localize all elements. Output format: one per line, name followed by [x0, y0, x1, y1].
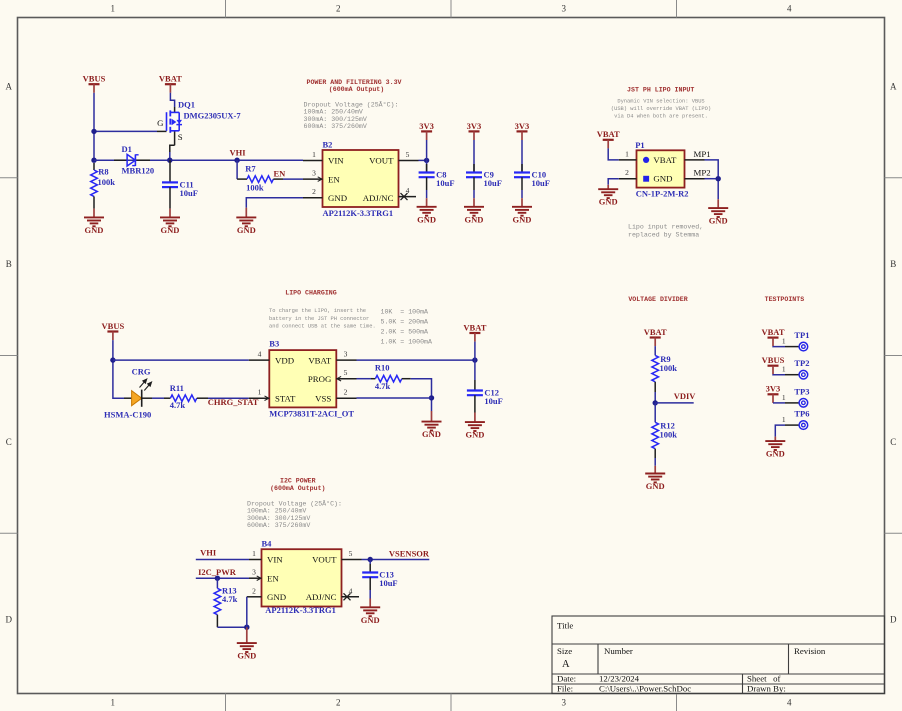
svg-text:VBAT: VBAT — [653, 155, 677, 165]
junction MP1/MP2 — [716, 176, 721, 181]
svg-text:3V3: 3V3 — [515, 121, 530, 131]
svg-text:2: 2 — [252, 586, 256, 595]
wire VHI to R7 — [236, 160, 238, 179]
svg-text:CN-1P-2M-R2: CN-1P-2M-R2 — [636, 189, 689, 199]
svg-text:5: 5 — [406, 150, 410, 159]
pin MP1 of P1 — [685, 149, 711, 160]
svg-text:2: 2 — [625, 168, 629, 177]
svg-text:4: 4 — [349, 586, 353, 595]
svg-text:VBUS: VBUS — [102, 321, 125, 331]
svg-text:3: 3 — [561, 698, 566, 708]
svg-text:TP2: TP2 — [794, 358, 809, 368]
junction rail/source/C11 — [167, 158, 172, 163]
power port VBUS (3.3V reg input) — [83, 74, 106, 93]
svg-text:R8: R8 — [98, 166, 108, 176]
ground under C13 — [360, 599, 380, 625]
svg-text:10uF: 10uF — [436, 178, 454, 188]
pin 5 VOUT of B2 — [369, 150, 418, 166]
svg-text:VIN: VIN — [328, 156, 344, 166]
diode D1 MBR120 — [114, 144, 154, 175]
svg-text:1: 1 — [625, 149, 629, 158]
wire I2C_PWR down — [216, 578, 218, 588]
svg-text:TESTPOINTS: TESTPOINTS — [765, 296, 805, 303]
wire TP2 wire — [773, 373, 785, 375]
svg-text:VBAT: VBAT — [644, 327, 667, 337]
svg-text:C: C — [6, 437, 12, 447]
svg-text:Drawn By:: Drawn By: — [747, 683, 786, 693]
svg-text:3: 3 — [561, 4, 566, 14]
svg-text:2: 2 — [344, 388, 348, 397]
svg-text:GND: GND — [653, 174, 672, 184]
svg-text:VOUT: VOUT — [369, 156, 394, 166]
svg-text:5: 5 — [349, 549, 353, 558]
svg-text:GND: GND — [599, 197, 618, 207]
wire C12 to gnd — [474, 360, 476, 380]
ground under P1 pin2 — [598, 185, 618, 207]
svg-text:VDD: VDD — [275, 355, 294, 365]
resistor R10 4.7k — [357, 362, 411, 391]
pin 3 VBAT of B3 — [308, 350, 356, 366]
ground under C11 — [160, 209, 180, 235]
svg-text:VSENSOR: VSENSOR — [389, 549, 430, 559]
pin 1 STAT of B3 — [249, 388, 296, 404]
svg-text:CRG: CRG — [132, 367, 151, 377]
svg-text:10uF: 10uF — [532, 178, 550, 188]
testpoint TP2 — [782, 358, 810, 379]
svg-text:B4: B4 — [262, 539, 273, 549]
svg-text:Revision: Revision — [794, 646, 826, 656]
svg-text:VBAT: VBAT — [463, 322, 486, 332]
svg-text:Dropout Voltage (25Â°C):: Dropout Voltage (25Â°C): — [304, 101, 399, 109]
title block text — [557, 621, 826, 694]
wire VBUS to VDD pin4 — [113, 359, 249, 361]
svg-text:600mA: 375/260mV: 600mA: 375/260mV — [247, 522, 310, 529]
transistor DQ1 DMG2305UX-7 P-MOSFET — [157, 100, 241, 153]
svg-text:3: 3 — [312, 169, 316, 178]
svg-text:100mA: 250/40mV: 100mA: 250/40mV — [304, 109, 363, 116]
wire source to rail — [169, 152, 171, 160]
wire VBAT to P1 pin1 — [608, 148, 619, 160]
wire main rail VBUS-D1-VHI — [94, 159, 303, 161]
svg-text:C: C — [890, 437, 896, 447]
pin 2 GND of P1 — [619, 168, 673, 184]
svg-text:GND: GND — [417, 214, 436, 224]
wire LED to R11 — [152, 397, 164, 399]
svg-text:GND: GND — [161, 225, 180, 235]
svg-text:D: D — [890, 615, 897, 625]
capacitor C13 10uF — [362, 564, 397, 590]
svg-text:AP2112K-3.3TRG1: AP2112K-3.3TRG1 — [323, 208, 394, 218]
svg-text:S: S — [178, 132, 183, 142]
power port VBAT (divider) — [644, 327, 667, 346]
svg-text:100k: 100k — [98, 177, 116, 187]
capacitor C11 10uF — [162, 160, 198, 208]
svg-text:10uF: 10uF — [379, 578, 397, 588]
svg-text:GND: GND — [422, 429, 441, 439]
power port VBAT (charger out) — [463, 322, 486, 341]
power port VBAT (sec1) — [159, 74, 182, 93]
testpoint TP6 — [782, 409, 810, 430]
wire TP1 wire — [773, 345, 785, 347]
wire VBUS down to LED — [113, 340, 124, 398]
svg-text:A: A — [890, 82, 897, 92]
pin MP2 of P1 — [685, 168, 711, 179]
svg-text:R11: R11 — [170, 383, 184, 393]
pin 1 VIN of B2 — [303, 150, 344, 166]
svg-text:D1: D1 — [122, 144, 132, 154]
power port 3V3 over C9 — [467, 121, 482, 140]
capacitor C10 10uF — [514, 164, 550, 190]
wire C10 to gnd — [521, 190, 523, 198]
svg-text:GND: GND — [646, 481, 665, 491]
wire VBUS down — [93, 93, 95, 160]
junction I2C_PWR/R13 — [215, 576, 220, 581]
svg-text:Size: Size — [557, 646, 572, 656]
wire 3V3 to C8 — [426, 140, 428, 173]
svg-text:DMG2305UX-7: DMG2305UX-7 — [184, 111, 242, 121]
junction VDIV — [653, 400, 658, 405]
svg-text:5.0K = 200mA: 5.0K = 200mA — [381, 319, 429, 326]
power port VBUS (charger) — [102, 321, 125, 340]
svg-text:EN: EN — [328, 174, 340, 184]
note charging instructions — [269, 308, 376, 329]
junction VBAT/C12 — [472, 357, 477, 362]
pin 2 GND of B2 — [303, 187, 347, 203]
svg-text:and connect USB at the same ti: and connect USB at the same time. — [269, 323, 376, 329]
svg-text:To charge the LIPO, insert the: To charge the LIPO, insert the — [269, 308, 366, 314]
wire C13 to gnd — [369, 560, 371, 565]
wire gate net — [94, 130, 157, 132]
wire R13 bottom to gnd node — [217, 626, 246, 628]
svg-text:600mA: 375/260mV: 600mA: 375/260mV — [304, 123, 367, 130]
svg-text:P1: P1 — [635, 140, 644, 150]
svg-text:TP6: TP6 — [794, 409, 809, 419]
svg-text:GND: GND — [709, 216, 728, 226]
svg-text:TP1: TP1 — [794, 330, 809, 340]
pin 5 PROG of B3 — [308, 368, 357, 384]
svg-text:10K = 100mA: 10K = 100mA — [381, 308, 429, 315]
wire VDIV to R12 — [654, 403, 656, 422]
svg-text:R10: R10 — [375, 362, 390, 372]
ground under MP2 — [708, 199, 728, 225]
junction VBUS/gate — [91, 129, 96, 134]
note title POWER AND FILTERING — [307, 79, 402, 93]
wire TP6 wire — [775, 425, 785, 437]
pin 5 VOUT of B4 — [312, 549, 361, 565]
wire VBAT port down — [474, 342, 476, 361]
note prog resistor table — [381, 308, 432, 345]
svg-text:A: A — [562, 659, 570, 670]
svg-text:1: 1 — [110, 4, 115, 14]
svg-text:1: 1 — [252, 549, 256, 558]
resistor R8 100k — [91, 163, 116, 209]
wire VBAT to DQ1 drain — [170, 93, 174, 107]
svg-text:VOLTAGE DIVIDER: VOLTAGE DIVIDER — [628, 296, 687, 303]
svg-text:VBAT: VBAT — [597, 129, 620, 139]
capacitor C8 10uF — [419, 164, 455, 190]
svg-text:4.7k: 4.7k — [170, 400, 186, 410]
svg-text:4: 4 — [787, 4, 792, 14]
capacitor C9 10uF — [466, 164, 502, 190]
capacitor C12 10uF — [467, 380, 503, 413]
svg-text:C:\Users\..\Power.SchDoc: C:\Users\..\Power.SchDoc — [599, 683, 691, 693]
svg-text:I2C POWER: I2C POWER — [280, 477, 316, 484]
wire MP1/MP2 to gnd — [705, 160, 719, 199]
svg-text:100k: 100k — [660, 429, 678, 439]
junction VBUS/VDD — [110, 357, 115, 362]
svg-text:VBAT: VBAT — [308, 355, 332, 365]
svg-text:1: 1 — [258, 388, 262, 397]
note dropout voltage B4 — [247, 499, 342, 529]
power port 3V3 over C10 — [515, 121, 530, 140]
resistor R7 100k + EN net — [237, 160, 283, 192]
wire 3V3 to C10 — [521, 140, 523, 173]
svg-text:GND: GND — [237, 225, 256, 235]
ground under R10/VSS — [422, 411, 442, 439]
svg-text:GND: GND — [85, 225, 104, 235]
svg-text:12/23/2024: 12/23/2024 — [599, 674, 640, 684]
ground under R8 — [84, 209, 104, 235]
svg-text:100mA: 250/40mV: 100mA: 250/40mV — [247, 508, 306, 515]
svg-text:10uF: 10uF — [180, 188, 198, 198]
svg-text:JST PH LIPO INPUT: JST PH LIPO INPUT — [627, 87, 694, 94]
svg-text:EN: EN — [274, 168, 287, 178]
svg-text:VBUS: VBUS — [762, 355, 785, 365]
svg-text:VBAT: VBAT — [762, 327, 785, 337]
wire EN to pin3 — [283, 178, 303, 180]
wire VBAT to R9 — [654, 346, 656, 355]
svg-text:battery in the JST PH connecto: battery in the JST PH connector — [269, 316, 369, 322]
ground under R12 — [645, 466, 665, 491]
resistor R13 4.7k — [214, 578, 238, 627]
op-amp U3 regulator B4 AP2112K-3.3TRG1 — [262, 539, 342, 615]
svg-text:VIN: VIN — [267, 555, 283, 565]
junction rail/R7 — [234, 158, 239, 163]
power port 3V3 over C8 — [419, 121, 434, 140]
wire CHRG_STAT — [208, 397, 249, 399]
wire pin2 B2 to gnd — [246, 198, 303, 208]
testpoint TP1 — [782, 330, 810, 351]
svg-text:300mA: 300/125mV: 300mA: 300/125mV — [304, 116, 367, 123]
svg-text:3V3: 3V3 — [467, 121, 482, 131]
svg-text:TP3: TP3 — [794, 386, 809, 396]
wire C9 to gnd — [473, 190, 475, 198]
svg-text:Lipo input removed,: Lipo input removed, — [628, 223, 703, 230]
note dropout voltage B2 — [304, 101, 399, 131]
svg-text:B3: B3 — [269, 339, 279, 349]
svg-text:10uF: 10uF — [484, 178, 502, 188]
svg-text:(600mA Output): (600mA Output) — [329, 86, 384, 93]
svg-text:2.0K = 500mA: 2.0K = 500mA — [381, 329, 429, 336]
pin 4 ADJ/NC of B4 — [306, 586, 359, 602]
svg-text:B: B — [890, 259, 896, 269]
wire PROG to R10 — [357, 378, 372, 380]
pin 2 VSS of B3 — [315, 388, 356, 404]
wire VBAT pin3 to VBAT port — [357, 359, 475, 361]
svg-text:VBAT: VBAT — [159, 74, 182, 84]
pin 1 VIN of B4 — [249, 549, 283, 565]
svg-text:1: 1 — [782, 393, 786, 402]
svg-text:Dynamic VIN selection: VBUS: Dynamic VIN selection: VBUS — [617, 99, 704, 105]
svg-text:3: 3 — [344, 350, 348, 359]
svg-text:100k: 100k — [660, 363, 678, 373]
ground under C10 — [512, 198, 532, 224]
op-amp U2 charger B3 MCP73831T-2ACI_OT — [269, 339, 354, 419]
svg-text:10uF: 10uF — [484, 396, 502, 406]
svg-text:HSMA-C190: HSMA-C190 — [104, 409, 151, 419]
svg-text:GND: GND — [267, 592, 286, 602]
wire VOUT to VSENSOR — [362, 559, 430, 561]
svg-text:4.7k: 4.7k — [222, 594, 238, 604]
svg-text:File:: File: — [557, 683, 573, 693]
power port VBUS (TP2) — [762, 355, 785, 374]
title block — [552, 616, 885, 694]
svg-text:LIPO CHARGING: LIPO CHARGING — [285, 289, 336, 296]
svg-text:VSS: VSS — [315, 393, 331, 403]
ground under TP6 — [765, 437, 785, 459]
op-amp U1 regulator B2 AP2112K-3.3TRG1 — [323, 139, 399, 218]
svg-text:AP2112K-3.3TRG1: AP2112K-3.3TRG1 — [265, 605, 336, 615]
svg-text:1.0K = 1000mA: 1.0K = 1000mA — [381, 339, 432, 346]
note lipo input removed — [628, 223, 703, 238]
junction VOUT/C8 — [424, 158, 429, 163]
note dynamic vin selection — [611, 99, 711, 120]
ground under C12 — [465, 413, 485, 440]
svg-text:4: 4 — [406, 186, 410, 195]
svg-text:GND: GND — [766, 449, 785, 459]
svg-text:VHI: VHI — [230, 148, 247, 158]
testpoint TP3 — [782, 386, 810, 407]
svg-text:MP2: MP2 — [694, 168, 711, 178]
resistor R12 100k — [652, 403, 677, 458]
svg-text:4: 4 — [787, 698, 792, 708]
junction VOUT/C13 — [368, 557, 373, 562]
svg-text:GND: GND — [465, 430, 484, 440]
svg-text:Date:: Date: — [557, 674, 576, 684]
wire VSS pin2 — [357, 397, 432, 399]
resistor R9 100k — [652, 346, 677, 392]
svg-text:4.7k: 4.7k — [375, 381, 391, 391]
resistor R11 4.7k — [152, 383, 208, 410]
svg-text:100k: 100k — [246, 183, 264, 193]
svg-text:GND: GND — [465, 214, 484, 224]
wire R10 to VSS gnd — [411, 379, 432, 411]
svg-text:GND: GND — [237, 651, 256, 661]
wire R9 to VDIV node — [654, 392, 656, 403]
svg-text:via D4 when both are present.: via D4 when both are present. — [614, 114, 708, 120]
svg-text:Dropout Voltage (25Â°C):: Dropout Voltage (25Â°C): — [247, 499, 342, 507]
ground under B2 pin2 — [236, 208, 256, 235]
pin 3 EN of B4 — [249, 568, 279, 584]
connector P1 CN-1P-2M-R2 — [635, 140, 688, 199]
power port VBAT (TP1) — [762, 327, 785, 346]
svg-text:Title: Title — [557, 621, 573, 631]
svg-text:STAT: STAT — [275, 393, 296, 403]
wire 3V3 to C9 — [473, 140, 475, 173]
svg-text:2: 2 — [312, 187, 316, 196]
svg-text:3V3: 3V3 — [766, 384, 781, 394]
svg-text:1: 1 — [782, 337, 786, 346]
junction R13/pin2 gnd — [244, 625, 249, 630]
svg-text:PROG: PROG — [308, 374, 332, 384]
LED CRG HSMA-C190 — [104, 367, 152, 420]
wire TP3 wire — [773, 402, 785, 404]
svg-text:2: 2 — [336, 4, 341, 14]
svg-text:(USB) will override VBAT (LIPO: (USB) will override VBAT (LIPO) — [611, 106, 711, 112]
svg-text:A: A — [5, 82, 12, 92]
pin 1 VBAT of P1 — [619, 149, 677, 165]
wire VHI to B4 pin1 — [196, 559, 249, 561]
svg-text:VBUS: VBUS — [83, 74, 106, 84]
svg-text:1: 1 — [782, 365, 786, 374]
wire VOUT to 3V3 rail — [419, 159, 427, 161]
svg-text:3: 3 — [252, 568, 256, 577]
svg-text:VHI: VHI — [200, 547, 217, 557]
junction VBUS/rail — [91, 158, 96, 163]
svg-text:3V3: 3V3 — [419, 121, 434, 131]
svg-text:replaced by Stemma: replaced by Stemma — [628, 232, 699, 239]
svg-text:VDIV: VDIV — [674, 391, 697, 401]
svg-text:GND: GND — [328, 193, 347, 203]
svg-text:MCP73831T-2ACI_OT: MCP73831T-2ACI_OT — [269, 408, 354, 418]
svg-text:1: 1 — [782, 415, 786, 424]
svg-text:Sheet of: Sheet of — [747, 674, 781, 684]
power port 3V3 (TP3) — [766, 384, 781, 403]
power port VBAT (P1) — [597, 129, 620, 148]
wire R12 to gnd — [654, 458, 656, 466]
pin 4 ADJ/NC of B2 — [363, 186, 416, 203]
junction VSS/R10 — [429, 395, 434, 400]
svg-text:G: G — [157, 118, 164, 128]
note title I2C POWER — [270, 477, 325, 492]
pin 2 GND of B4 — [247, 586, 286, 602]
ground under C8 — [417, 198, 437, 224]
svg-text:MBR120: MBR120 — [122, 165, 155, 175]
svg-text:5: 5 — [344, 368, 348, 377]
pin 3 EN of B2 — [303, 169, 340, 185]
svg-text:ADJ/NC: ADJ/NC — [363, 193, 394, 203]
svg-text:DQ1: DQ1 — [178, 100, 195, 110]
svg-text:300mA: 300/125mV: 300mA: 300/125mV — [247, 515, 310, 522]
svg-text:GND: GND — [513, 214, 532, 224]
svg-text:B: B — [6, 259, 12, 269]
svg-text:(600mA Output): (600mA Output) — [270, 485, 325, 492]
wire I2C_PWR to B4 pin3 — [196, 577, 249, 579]
wire C8 to gnd — [426, 190, 428, 198]
svg-text:B2: B2 — [323, 139, 333, 149]
ground under B4 — [237, 627, 257, 660]
svg-text:VOUT: VOUT — [312, 555, 337, 565]
svg-text:MP1: MP1 — [694, 149, 711, 159]
svg-text:EN: EN — [267, 573, 279, 583]
wire P1 pin2 to gnd — [608, 179, 619, 185]
pin 4 VDD of B3 — [249, 350, 294, 366]
svg-text:GND: GND — [361, 615, 380, 625]
svg-text:1: 1 — [312, 150, 316, 159]
svg-text:Number: Number — [604, 646, 633, 656]
svg-text:D: D — [5, 615, 12, 625]
svg-text:4: 4 — [258, 350, 262, 359]
wire B4 pin2 down — [246, 597, 248, 627]
wire VDIV stub — [655, 402, 694, 404]
svg-text:2: 2 — [336, 698, 341, 708]
svg-text:ADJ/NC: ADJ/NC — [306, 592, 337, 602]
svg-text:1: 1 — [110, 698, 115, 708]
svg-text:R7: R7 — [245, 164, 256, 174]
ground under C9 — [464, 198, 484, 224]
